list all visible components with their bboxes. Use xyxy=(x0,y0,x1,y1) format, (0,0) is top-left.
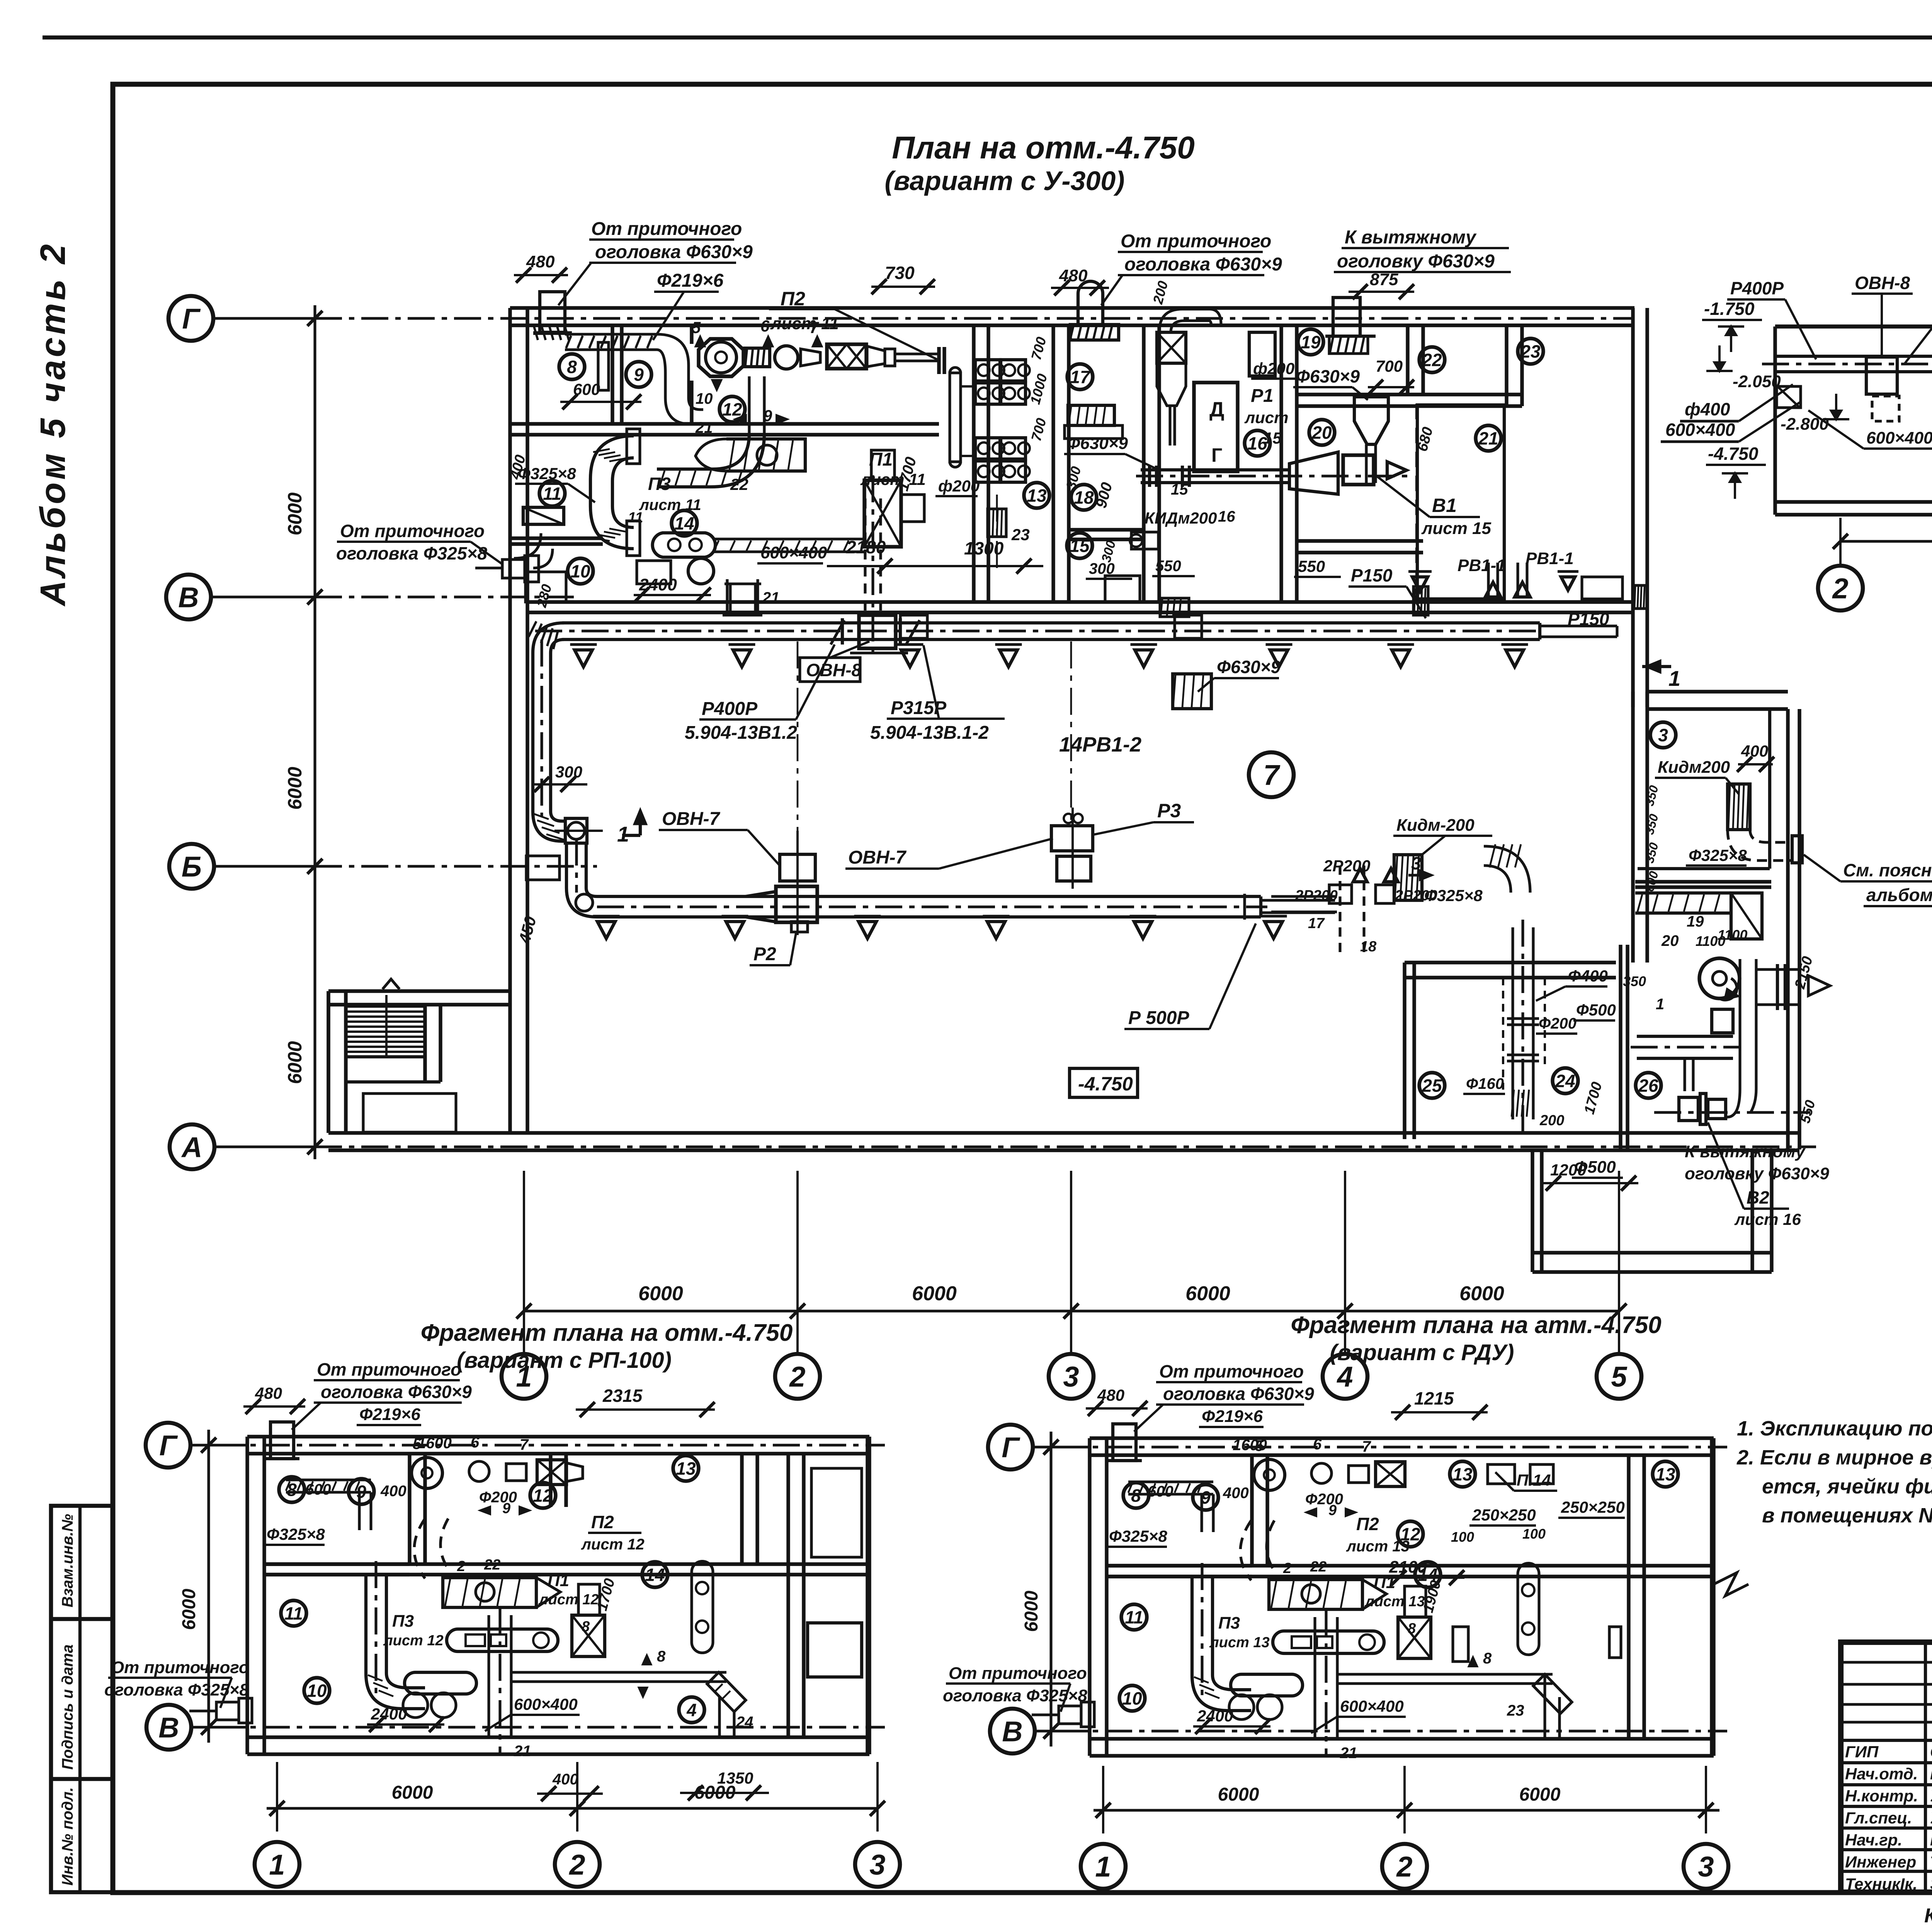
svg-text:От приточного: От приточного xyxy=(340,521,485,541)
svg-text:-4.750: -4.750 xyxy=(1708,444,1759,464)
svg-text:15: 15 xyxy=(1171,481,1188,498)
svg-text:6: 6 xyxy=(471,1434,480,1451)
svg-text:600: 600 xyxy=(573,380,600,398)
svg-text:РВ1-1: РВ1-1 xyxy=(1526,549,1574,568)
svg-text:5.904-13В.1-2: 5.904-13В.1-2 xyxy=(870,723,989,743)
frag2 interior walls xyxy=(1250,1455,1253,1566)
svg-text:лист 13: лист 13 xyxy=(1209,1634,1270,1651)
svg-text:Г: Г xyxy=(159,1430,178,1462)
svg-text:1. Экспликацию помещений см: 1. Экспликацию помещений см. лист АР-4 а… xyxy=(1737,1417,1932,1440)
lower duct hangers xyxy=(597,922,615,939)
lower right rooms top wall xyxy=(1405,961,1616,964)
horizontal branch mid xyxy=(1271,895,1337,898)
svg-text:Ф630×9: Ф630×9 xyxy=(1296,366,1360,386)
frag1 diagonal duct 24 xyxy=(707,1672,746,1712)
svg-text:2. Если в мирное время очис: 2. Если в мирное время очистка наружного… xyxy=(1736,1446,1932,1469)
frag2 small boxes top right xyxy=(1488,1464,1515,1484)
svg-text:ГИП: ГИП xyxy=(1845,1743,1879,1761)
svg-text:Ф200: Ф200 xyxy=(479,1489,517,1506)
interior wall room13 left xyxy=(972,325,975,602)
room21 inner box xyxy=(1417,405,1504,599)
room 14 bubble xyxy=(672,510,697,536)
svg-text:6000: 6000 xyxy=(1021,1590,1042,1632)
svg-text:П3: П3 xyxy=(1218,1614,1240,1633)
svg-text:2400: 2400 xyxy=(1197,1707,1233,1725)
svg-text:лист 13: лист 13 xyxy=(1346,1538,1410,1555)
bottom exterior wall xyxy=(328,1131,1799,1134)
svg-text:22: 22 xyxy=(1310,1559,1327,1575)
svg-text:5.904-13В1.2: 5.904-13В1.2 xyxy=(685,723,797,743)
risers dashed room24 xyxy=(1502,978,1504,1090)
axis V line xyxy=(315,595,576,598)
axis G bubble xyxy=(168,296,213,341)
wall A2 triangles xyxy=(1412,577,1428,592)
svg-text:лист 12: лист 12 xyxy=(581,1536,645,1553)
stair annex walls xyxy=(327,991,330,1133)
svg-text:10: 10 xyxy=(570,561,590,582)
sec1 bubbles xyxy=(1818,566,1863,611)
motor circle xyxy=(775,346,798,369)
svg-text:24: 24 xyxy=(736,1714,753,1731)
svg-text:(вариант с РП-100): (вариант с РП-100) xyxy=(457,1348,672,1373)
riser 23 hatched xyxy=(988,509,1006,537)
svg-text:Самитов: Самитов xyxy=(1930,1743,1932,1761)
middle duct room15-16 xyxy=(1141,468,1289,471)
svg-text:300: 300 xyxy=(555,763,582,781)
dim 730 xyxy=(871,286,935,288)
svg-text:2: 2 xyxy=(1283,1560,1291,1577)
column bubbles plan xyxy=(502,1354,546,1399)
frag2 walls xyxy=(1090,1436,1714,1440)
svg-text:П2: П2 xyxy=(591,1512,614,1532)
damper box on duct xyxy=(565,818,587,843)
frag1 stub left V xyxy=(216,1702,239,1720)
svg-text:альбом 1: альбом 1 xyxy=(1866,885,1932,905)
room 17 bubble xyxy=(1067,364,1093,389)
svg-text:лист 12: лист 12 xyxy=(383,1633,444,1649)
pipe stub top-left F219 xyxy=(540,292,565,332)
dim 700 room20 xyxy=(1368,386,1414,388)
svg-text:Н.контр.: Н.контр. xyxy=(1845,1787,1918,1805)
axis A bubble xyxy=(170,1124,214,1169)
svg-text:Васильева: Васильева xyxy=(1930,1831,1932,1849)
svg-text:Р150: Р150 xyxy=(1351,565,1393,585)
svg-text:От приточного: От приточного xyxy=(1159,1361,1304,1381)
svg-text:19: 19 xyxy=(1301,332,1321,352)
U-duct room 11 xyxy=(590,436,634,549)
exhaust shaft P3 down xyxy=(729,584,731,615)
elbow duct from kidm xyxy=(1484,846,1530,893)
room 12 bubble xyxy=(719,396,745,422)
svg-text:6000: 6000 xyxy=(1218,1784,1259,1805)
svg-text:6000: 6000 xyxy=(284,492,306,535)
svg-text:От приточного: От приточного xyxy=(1121,231,1271,252)
riser strip room 24 xyxy=(1511,927,1514,1119)
svg-text:-4.750: -4.750 xyxy=(1078,1073,1133,1095)
dim 480 middle xyxy=(1051,287,1109,289)
frag1 rooms bottom wall xyxy=(264,1562,869,1566)
svg-text:250×250: 250×250 xyxy=(1472,1506,1536,1524)
hatched riser right wall xyxy=(1634,585,1647,609)
room16 cyclone unit xyxy=(1157,332,1186,363)
svg-text:480: 480 xyxy=(255,1384,282,1402)
svg-text:оголовка Ф325×8: оголовка Ф325×8 xyxy=(336,543,487,563)
svg-text:Нач.отд.: Нач.отд. xyxy=(1845,1765,1918,1783)
svg-text:600: 600 xyxy=(305,1481,331,1498)
room 16 bubble xyxy=(1245,430,1270,456)
svg-text:3: 3 xyxy=(1063,1361,1079,1393)
diagonal transition xyxy=(1289,452,1338,494)
svg-text:2315: 2315 xyxy=(602,1386,643,1406)
svg-text:Фрагмент плана на атм.-4.750: Фрагмент плана на атм.-4.750 xyxy=(1291,1312,1661,1338)
frag2 dim 480 xyxy=(1086,1407,1148,1410)
svg-text:1: 1 xyxy=(1095,1851,1111,1883)
svg-text:оголовка Ф630×9: оголовка Ф630×9 xyxy=(1124,254,1282,275)
svg-text:Козлов: Козлов xyxy=(1930,1765,1932,1783)
room20 cyclone xyxy=(1354,397,1388,444)
interior wall rooms mid horizontal xyxy=(511,422,939,425)
svg-text:100: 100 xyxy=(1451,1529,1474,1545)
P2 box xyxy=(791,922,808,932)
svg-text:6000: 6000 xyxy=(694,1782,736,1803)
frag1 dim 2315 xyxy=(576,1408,715,1411)
B1 fan unit xyxy=(1343,455,1374,485)
title block signature columns xyxy=(1924,1642,1927,1892)
svg-text:(вариант с У-300): (вариант с У-300) xyxy=(884,166,1124,196)
frag2 P3 oval unit xyxy=(1273,1631,1384,1653)
svg-text:11: 11 xyxy=(284,1604,303,1624)
svg-text:730: 730 xyxy=(885,263,915,283)
R150 hatched riser xyxy=(1413,587,1428,615)
room 7 bubble xyxy=(1249,752,1294,797)
svg-text:23: 23 xyxy=(1507,1702,1524,1719)
svg-text:6000: 6000 xyxy=(1459,1282,1504,1305)
room 9 bubble xyxy=(626,362,651,387)
svg-text:Г: Г xyxy=(1211,444,1222,466)
lower right rooms left wall xyxy=(1403,963,1406,1139)
D box room16 xyxy=(1194,383,1238,471)
svg-text:13: 13 xyxy=(1027,486,1047,506)
frag2 axis V bubble xyxy=(990,1709,1035,1753)
svg-text:1200: 1200 xyxy=(1550,1161,1586,1179)
interior horizontal wall room15 xyxy=(1069,528,1144,531)
annex bubble 3 xyxy=(1650,722,1676,748)
svg-text:1: 1 xyxy=(516,1361,532,1393)
title block outer xyxy=(1841,1642,1932,1892)
svg-text:21: 21 xyxy=(1340,1745,1357,1762)
svg-text:2100: 2100 xyxy=(1389,1558,1427,1577)
svg-text:8: 8 xyxy=(582,1619,590,1635)
frag2 capsule loop room14 xyxy=(1518,1574,1539,1644)
svg-text:7: 7 xyxy=(520,1436,529,1453)
svg-text:Нач.гр.: Нач.гр. xyxy=(1845,1831,1902,1849)
svg-text:Кидм-200: Кидм-200 xyxy=(1396,816,1475,835)
P1 supply shaft riser xyxy=(864,498,866,615)
svg-text:13: 13 xyxy=(1655,1464,1675,1485)
room 22 bubble xyxy=(1419,347,1445,372)
svg-text:2400: 2400 xyxy=(371,1705,407,1723)
room11 vane box xyxy=(523,507,564,524)
svg-text:План на отм.-4.750: План на отм.-4.750 xyxy=(892,130,1195,165)
svg-text:ф200: ф200 xyxy=(938,477,980,495)
annex elbow duct dashed xyxy=(1728,830,1793,861)
interior horizontal wall rooms 19-22 xyxy=(1297,393,1522,396)
svg-text:6000: 6000 xyxy=(179,1588,199,1630)
frag1 axis V bubble xyxy=(146,1705,191,1750)
svg-text:Ф630×9: Ф630×9 xyxy=(1217,657,1281,677)
drop section walls xyxy=(1531,1150,1534,1272)
room 20 bubble xyxy=(1309,420,1335,445)
stub F630 top middle xyxy=(1078,281,1103,325)
svg-text:480: 480 xyxy=(1097,1386,1124,1404)
svg-text:В: В xyxy=(158,1712,179,1744)
svg-text:П2: П2 xyxy=(781,288,805,310)
svg-text:Ф325×8: Ф325×8 xyxy=(518,464,576,483)
sec1 left wall xyxy=(1773,327,1777,515)
right annex upper walls xyxy=(1631,692,1634,963)
frag2 lower oval unit xyxy=(1231,1674,1303,1696)
svg-text:550: 550 xyxy=(1298,557,1325,575)
stair break mark xyxy=(383,979,400,989)
2P200 manifold xyxy=(1338,866,1341,958)
room 19 bubble xyxy=(1298,329,1323,355)
room 18 bubble xyxy=(1071,485,1097,510)
svg-text:1600: 1600 xyxy=(417,1435,452,1452)
svg-text:К вытяжному: К вытяжному xyxy=(1345,227,1477,248)
svg-text:22: 22 xyxy=(484,1557,500,1573)
svg-text:2: 2 xyxy=(1832,573,1848,605)
svg-text:10: 10 xyxy=(1122,1689,1142,1709)
axis B line xyxy=(315,865,597,867)
frag1 capsule loop room14 xyxy=(692,1572,713,1642)
vertical duct right room26 xyxy=(1738,959,1741,1089)
room 26 bubble xyxy=(1636,1073,1661,1098)
svg-text:8: 8 xyxy=(567,357,577,377)
svg-text:Усенков: Усенков xyxy=(1930,1787,1932,1805)
interior wall 9-12 xyxy=(690,325,693,344)
svg-text:лист 13: лист 13 xyxy=(1364,1594,1425,1610)
left exterior wall xyxy=(508,308,512,1133)
svg-text:Ф325×8: Ф325×8 xyxy=(267,1525,325,1543)
bottom dimension line xyxy=(524,1310,1619,1312)
frag1 transition 22 xyxy=(443,1578,536,1607)
frag1 P1 unit xyxy=(572,1615,605,1656)
svg-text:оголовка Ф630×9: оголовка Ф630×9 xyxy=(595,242,753,262)
svg-text:-2.050: -2.050 xyxy=(1733,372,1781,391)
frag2 west duct vertical xyxy=(1190,1576,1194,1675)
svg-text:21: 21 xyxy=(514,1743,531,1760)
room 24 bubble xyxy=(1553,1068,1578,1094)
sec1 duct band xyxy=(1775,355,1932,358)
lower duct narrow extension xyxy=(1261,899,1335,901)
frag1 dim 480 xyxy=(243,1405,305,1408)
svg-text:400: 400 xyxy=(1741,742,1768,760)
svg-text:оголовка Ф630×9: оголовка Ф630×9 xyxy=(321,1382,472,1402)
svg-text:6000: 6000 xyxy=(284,767,306,810)
svg-text:П1: П1 xyxy=(548,1571,569,1590)
fan volute room 26 xyxy=(1699,958,1740,998)
frag2 axis G bubble xyxy=(988,1425,1033,1469)
svg-text:ТехникIк.: ТехникIк. xyxy=(1845,1875,1917,1893)
svg-text:Фрагмент плана на отм.-4.750: Фрагмент плана на отм.-4.750 xyxy=(421,1320,793,1346)
room 23 bubble xyxy=(1518,338,1543,364)
svg-text:Г: Г xyxy=(1002,1432,1020,1464)
svg-text:ОВН-8: ОВН-8 xyxy=(806,660,862,680)
svg-text:9: 9 xyxy=(763,406,772,425)
pump B2 xyxy=(1679,1097,1698,1121)
svg-text:Копировал:: Копировал: xyxy=(1924,1905,1932,1927)
F219 duct elbow down xyxy=(657,334,689,398)
dim 875 xyxy=(1349,291,1414,293)
sheet outer top edge xyxy=(43,36,1932,40)
svg-text:Альбом 5 часть 2: Альбом 5 часть 2 xyxy=(33,241,73,607)
register box above duct xyxy=(780,854,815,881)
frag1 pipe stub top xyxy=(270,1422,294,1459)
svg-text:480: 480 xyxy=(1059,266,1088,285)
frag2 vertical duct 23 xyxy=(1543,1674,1546,1739)
svg-text:12: 12 xyxy=(722,400,742,420)
axis B bubble xyxy=(169,844,214,889)
interior wall 8-9 xyxy=(611,325,614,425)
svg-text:16: 16 xyxy=(1218,508,1235,525)
svg-text:2: 2 xyxy=(457,1558,465,1575)
svg-text:22: 22 xyxy=(730,475,748,493)
svg-text:600×400: 600×400 xyxy=(1340,1697,1404,1715)
svg-text:Р1: Р1 xyxy=(1251,386,1274,406)
corner duct below annex xyxy=(1635,891,1731,895)
svg-text:От приточного: От приточного xyxy=(111,1658,249,1677)
svg-text:оголовку Ф630×9: оголовку Ф630×9 xyxy=(1337,251,1495,272)
svg-text:лист: лист xyxy=(1244,408,1289,427)
big sweep duct to P3 xyxy=(657,434,764,487)
svg-text:17: 17 xyxy=(1308,915,1325,932)
sec1 ceiling line xyxy=(1775,325,1932,329)
svg-text:550: 550 xyxy=(1155,558,1181,575)
svg-text:лист 12: лист 12 xyxy=(538,1592,599,1608)
label 600 room8 xyxy=(560,401,641,403)
cyclone top elbow hatched xyxy=(1159,309,1221,332)
svg-text:23: 23 xyxy=(1520,342,1541,362)
svg-text:21: 21 xyxy=(695,419,713,436)
frag1 hatched duct xyxy=(286,1478,371,1481)
interior wall rooms 17-15 xyxy=(1142,325,1145,602)
svg-text:200: 200 xyxy=(1539,1112,1564,1129)
svg-text:700: 700 xyxy=(1376,357,1403,375)
svg-text:6: 6 xyxy=(760,317,770,335)
svg-text:600×400: 600×400 xyxy=(1866,429,1932,447)
right annex interior floors xyxy=(1638,867,1770,870)
svg-text:14РВ1-2: 14РВ1-2 xyxy=(1059,733,1141,756)
frag2 bubble 13 right xyxy=(1653,1461,1678,1487)
heater slab room17 xyxy=(1068,405,1114,425)
column dashdot lines in hall xyxy=(797,641,799,896)
frag2 room bubbles xyxy=(1123,1483,1149,1508)
fan outlet duct xyxy=(1712,1009,1733,1033)
sec1 floor xyxy=(1775,500,1932,503)
svg-text:П1: П1 xyxy=(869,449,893,470)
frag1 left dim xyxy=(207,1430,210,1743)
svg-text:11: 11 xyxy=(543,484,561,504)
svg-text:ф400: ф400 xyxy=(1685,399,1730,419)
svg-text:Ф219×6: Ф219×6 xyxy=(359,1405,420,1424)
frag2 break mark right xyxy=(1714,1573,1748,1596)
duct down from train xyxy=(748,376,750,434)
svg-text:В: В xyxy=(1002,1716,1022,1748)
frag1 room bubbles xyxy=(279,1477,304,1502)
svg-text:2: 2 xyxy=(789,1361,805,1393)
elbow to lower duct xyxy=(566,888,597,917)
svg-text:600×400: 600×400 xyxy=(514,1695,578,1713)
svg-text:оголовку Ф630×9: оголовку Ф630×9 xyxy=(1685,1164,1829,1183)
frag2 rooms bottom wall xyxy=(1107,1564,1714,1567)
svg-text:600×400: 600×400 xyxy=(760,543,827,562)
svg-text:В2: В2 xyxy=(1747,1187,1769,1207)
svg-text:25: 25 xyxy=(1422,1076,1442,1096)
interior wall room13 right xyxy=(1051,325,1055,602)
frag2 dim 1215 xyxy=(1391,1411,1488,1413)
svg-text:Инв.№ подл.: Инв.№ подл. xyxy=(59,1787,76,1886)
frag1 axis G bubble xyxy=(146,1423,190,1468)
svg-text:Подпись и дата: Подпись и дата xyxy=(59,1645,76,1770)
frag1 lower oval unit xyxy=(405,1672,476,1694)
svg-text:400: 400 xyxy=(552,1771,578,1788)
lower duct run OVN-7 xyxy=(597,895,1261,898)
frag1 west duct vertical xyxy=(364,1574,367,1673)
svg-text:-2.800: -2.800 xyxy=(1781,415,1829,434)
rooms bottom wall xyxy=(527,600,1634,604)
frag1 big sweep to transition xyxy=(414,1519,448,1578)
frag1 walls xyxy=(247,1435,869,1438)
svg-text:Ф200: Ф200 xyxy=(1539,1015,1577,1032)
frag2 column bubbles xyxy=(1081,1844,1126,1889)
svg-text:4: 4 xyxy=(686,1700,697,1720)
svg-text:14: 14 xyxy=(674,514,694,534)
svg-text:6000: 6000 xyxy=(284,1041,306,1084)
svg-text:400: 400 xyxy=(1223,1485,1249,1502)
interior wall 11-10 xyxy=(511,536,603,540)
svg-text:Р400Р: Р400Р xyxy=(1730,278,1784,298)
svg-text:Захарова: Захарова xyxy=(1930,1875,1932,1893)
svg-text:См. пояснения: См. пояснения xyxy=(1843,860,1932,880)
svg-text:А: А xyxy=(181,1131,202,1163)
svg-text:Р3: Р3 xyxy=(1157,800,1181,821)
frag1 P1 shaft xyxy=(487,1615,490,1737)
svg-text:13: 13 xyxy=(676,1459,696,1479)
duct transition cone xyxy=(746,892,774,922)
svg-text:Гл.спец.: Гл.спец. xyxy=(1845,1809,1912,1827)
svg-text:6000: 6000 xyxy=(638,1282,683,1305)
upper duct slash marks xyxy=(831,620,844,645)
stub F325 through west wall xyxy=(502,560,525,578)
interior wall room20 right xyxy=(1406,325,1409,395)
OVN-7 box on duct xyxy=(776,886,817,922)
svg-text:оголовка Ф630×9: оголовка Ф630×9 xyxy=(1163,1384,1314,1404)
svg-text:21: 21 xyxy=(762,589,780,606)
svg-text:17: 17 xyxy=(1070,367,1091,387)
svg-text:600: 600 xyxy=(1148,1483,1173,1500)
svg-text:6: 6 xyxy=(1313,1436,1322,1453)
flex coupling xyxy=(745,348,770,367)
svg-text:лист 11: лист 11 xyxy=(770,314,839,333)
svg-text:1215: 1215 xyxy=(1414,1388,1454,1408)
svg-text:8: 8 xyxy=(1483,1650,1492,1667)
frag2 big sweep to transition xyxy=(1240,1520,1274,1580)
svg-text:В: В xyxy=(178,582,199,614)
svg-text:ОВН-8: ОВН-8 xyxy=(1855,273,1910,293)
frag2 hatched duct xyxy=(1128,1480,1213,1483)
svg-text:3: 3 xyxy=(1698,1851,1714,1883)
room 15 bubble xyxy=(1067,533,1092,558)
